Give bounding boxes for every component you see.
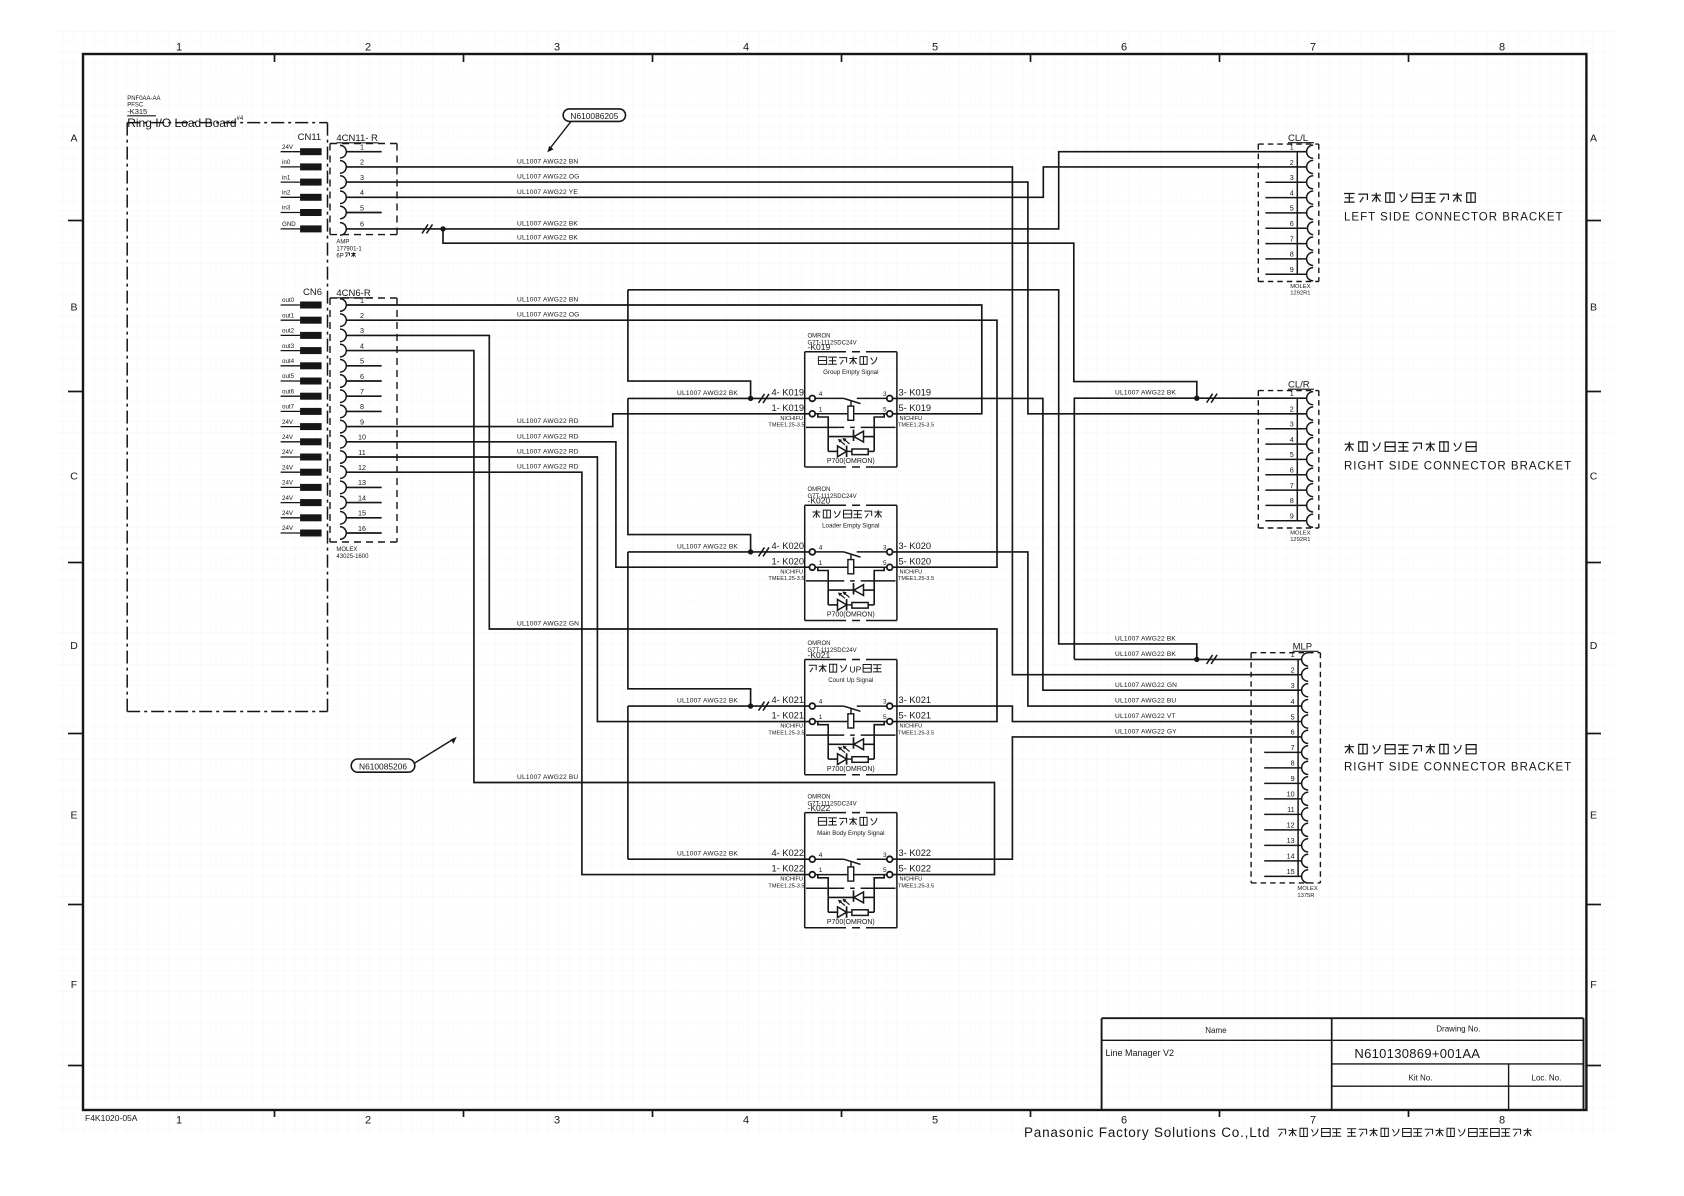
MLP pin 8 socket (1302, 761, 1309, 774)
svg-text:24V: 24V (282, 480, 294, 487)
CL/L pin 7 socket (1307, 237, 1314, 250)
svg-text:UL1007 AWG22 BK: UL1007 AWG22 BK (1115, 390, 1176, 397)
wire 4CN11-R pin1 stub (346, 151, 382, 153)
svg-text:7: 7 (1290, 234, 1294, 243)
wire BK branch to CL/R pin1 junction (443, 229, 1197, 398)
svg-text:3: 3 (1290, 420, 1294, 429)
svg-text:3: 3 (554, 1115, 560, 1127)
svg-text:A: A (70, 132, 77, 144)
svg-text:NICHIFU: NICHIFU (780, 877, 803, 883)
svg-text:3: 3 (883, 545, 887, 552)
wire 4CN6-R stub (346, 486, 382, 488)
svg-text:24V: 24V (282, 525, 294, 532)
CL/R pin 8 socket (1307, 499, 1314, 512)
CL/R pin 2 socket (1307, 407, 1314, 420)
CL/R pin 8 stub wire (1265, 504, 1306, 506)
svg-text:5- K021: 5- K021 (899, 711, 932, 721)
svg-text:4- K022: 4- K022 (771, 848, 804, 858)
svg-text:10: 10 (1287, 790, 1295, 799)
cable marker (759, 394, 765, 403)
svg-text:12: 12 (358, 463, 366, 472)
svg-text:4: 4 (1290, 188, 1294, 197)
connector MLP pin rail (1297, 659, 1299, 876)
svg-text:1- K019: 1- K019 (771, 403, 804, 413)
svg-text:1- K020: 1- K020 (771, 556, 804, 566)
svg-text:24V: 24V (282, 510, 294, 517)
svg-text:13: 13 (358, 478, 366, 487)
wire 4CN6-R stub (346, 517, 382, 519)
svg-text:14: 14 (358, 493, 366, 502)
svg-text:B: B (70, 302, 77, 314)
svg-text:3- K022: 3- K022 (899, 848, 932, 858)
wire relay K022 pin3 to MLP pin6 (892, 737, 1302, 859)
svg-text:8: 8 (1291, 759, 1295, 768)
svg-text:24V: 24V (282, 495, 294, 502)
MLP pin 13 stub wire (1264, 844, 1301, 846)
MLP pin 2 socket (1302, 668, 1309, 681)
svg-text:AMP: AMP (336, 240, 349, 246)
svg-text:7: 7 (1290, 481, 1294, 490)
svg-text:NICHIFU: NICHIFU (780, 724, 803, 730)
wire GN CN6 out2 to relay K021 pin5 (346, 335, 997, 721)
CL/L pin 1 socket (1307, 145, 1314, 158)
svg-text:CN11: CN11 (298, 132, 322, 143)
svg-text:6: 6 (1291, 728, 1295, 737)
wire 4CN6-R stub (346, 365, 382, 367)
wire BN CN11 in0 to MLP pin2 (346, 167, 1302, 675)
svg-text:RIGHT SIDE CONNECTOR BRACKET: RIGHT SIDE CONNECTOR BRACKET (1344, 461, 1572, 473)
svg-text:5: 5 (883, 560, 887, 567)
column ticks top (274, 54, 276, 62)
MLP pin 13 socket (1302, 839, 1309, 852)
svg-text:4: 4 (819, 391, 823, 398)
svg-text:1: 1 (360, 143, 364, 152)
4CN6-R pin 9 socket (340, 420, 346, 433)
CL/R pin 9 socket (1307, 514, 1314, 527)
svg-text:Count Up Signal: Count Up Signal (828, 677, 873, 684)
svg-text:13: 13 (1287, 836, 1295, 845)
svg-text:NICHIFU: NICHIFU (900, 877, 923, 883)
svg-text:1: 1 (819, 406, 823, 413)
svg-text:TMEE1.25-3.5: TMEE1.25-3.5 (898, 730, 934, 736)
svg-text:C: C (1590, 471, 1598, 483)
4CN6-R pin 15 socket (340, 512, 346, 525)
svg-text:Drawing No.: Drawing No. (1436, 1025, 1480, 1034)
svg-text:24V: 24V (282, 419, 294, 426)
svg-text:7: 7 (360, 387, 364, 396)
relay U K020 OMRON G7T-1112SDC24V (768, 487, 934, 621)
svg-text:1: 1 (176, 42, 182, 54)
CL/L pin 7 stub wire (1265, 243, 1306, 245)
svg-text:6: 6 (1121, 42, 1127, 54)
svg-text:2: 2 (360, 311, 364, 320)
CL/L pin 6 socket (1307, 222, 1313, 235)
svg-text:MOLEX: MOLEX (336, 547, 357, 553)
svg-text:2: 2 (360, 158, 364, 167)
svg-text:UL1007 AWG22 RD: UL1007 AWG22 RD (517, 464, 579, 471)
MLP pin 4 socket (1302, 700, 1309, 713)
svg-text:UL1007 AWG22 BK: UL1007 AWG22 BK (517, 220, 578, 227)
svg-text:out0: out0 (282, 297, 295, 304)
MLP pin 9 stub wire (1264, 782, 1301, 784)
svg-text:Line Manager V2: Line Manager V2 (1106, 1048, 1175, 1058)
drawing border frame (83, 54, 1586, 1110)
svg-text:2: 2 (1291, 666, 1295, 675)
svg-text:TMEE1.25-3.5: TMEE1.25-3.5 (768, 730, 804, 736)
CL/L pin 9 socket (1307, 268, 1314, 281)
svg-text:1: 1 (360, 296, 364, 305)
svg-text:4: 4 (743, 42, 749, 54)
svg-text:UL1007 AWG22 OG: UL1007 AWG22 OG (517, 312, 580, 319)
svg-text:NICHIFU: NICHIFU (780, 416, 803, 422)
title block (1102, 1017, 1584, 1019)
svg-text:2: 2 (365, 1115, 371, 1127)
4CN6-R dashed outline (330, 297, 397, 299)
MLP pin 7 socket (1302, 746, 1309, 759)
CL/R pin 4 socket (1307, 438, 1314, 451)
svg-text:C: C (70, 471, 78, 483)
svg-text:3- K021: 3- K021 (899, 695, 932, 705)
CL/L pin 3 stub wire (1265, 181, 1306, 183)
relay U K019 OMRON G7T-1112SDC24V (768, 334, 934, 468)
wire YE CN11 in2 to CL/L pin2 (346, 167, 1307, 197)
CL/L pin 3 socket (1307, 176, 1314, 189)
svg-text:14: 14 (1287, 852, 1295, 861)
CL/R pin 4 stub wire (1265, 443, 1306, 445)
wire RD CN6 24V pin11 to relay K021 pin1 (346, 457, 809, 722)
label left side connector bracket (JP) (1344, 194, 1355, 203)
junction BK chain (748, 549, 753, 554)
wire relay K020 pin3 to MLP pin4 (892, 552, 1302, 706)
svg-text:OMRON: OMRON (808, 794, 831, 800)
svg-text:2: 2 (1290, 158, 1294, 167)
svg-text:D: D (70, 640, 78, 652)
CL/R pin 7 stub wire (1265, 489, 1306, 491)
svg-text:7: 7 (1310, 42, 1316, 54)
cable marker on GND wire (422, 224, 428, 233)
svg-text:in2: in2 (282, 190, 291, 197)
svg-text:1292R1: 1292R1 (1290, 291, 1310, 297)
MLP pin 5 socket (1302, 715, 1309, 728)
wire MLP pin1 line (1074, 658, 1302, 660)
svg-text:in3: in3 (282, 205, 291, 212)
4CN6-R pin 11 socket (340, 451, 346, 464)
svg-text:9: 9 (1290, 512, 1294, 521)
svg-text:7: 7 (1291, 743, 1295, 752)
wire 4CN11-R pin5 stub (346, 212, 382, 214)
svg-text:1: 1 (1291, 650, 1295, 659)
svg-text:1: 1 (1290, 143, 1294, 152)
svg-text:4: 4 (1291, 697, 1295, 706)
CL/L pin 2 socket (1307, 160, 1314, 173)
svg-text:8: 8 (1290, 496, 1294, 505)
svg-text:P700(OMRON): P700(OMRON) (827, 612, 875, 619)
svg-text:TMEE1.25-3.5: TMEE1.25-3.5 (898, 883, 934, 889)
svg-text:UL1007 AWG22 BK: UL1007 AWG22 BK (677, 390, 738, 397)
svg-text:5- K022: 5- K022 (899, 864, 932, 874)
svg-text:6P: 6P (336, 254, 343, 260)
junction GND branch (440, 226, 445, 231)
CL/R pin 5 socket (1307, 453, 1314, 466)
svg-text:12: 12 (1287, 821, 1295, 830)
svg-text:6: 6 (1290, 219, 1294, 228)
svg-text:UL1007 AWG22 GN: UL1007 AWG22 GN (517, 621, 579, 628)
svg-text:8: 8 (360, 402, 364, 411)
svg-text:F4K1020-05A: F4K1020-05A (85, 1113, 138, 1123)
svg-text:OMRON: OMRON (808, 334, 831, 340)
svg-text:177901-1: 177901-1 (336, 247, 362, 253)
wire relay K019 pin3 to MLP pin3 (892, 398, 1302, 690)
svg-text:TMEE1.25-3.5: TMEE1.25-3.5 (898, 423, 934, 429)
wire 4CN6-R stub (346, 395, 382, 397)
4CN6-R pin 14 socket (340, 496, 346, 509)
MLP pin 11 socket (1302, 808, 1309, 821)
wire RD CN6 24V pin10 to relay K020 pin1 (346, 442, 809, 567)
svg-text:1- K022: 1- K022 (771, 864, 804, 874)
svg-text:N610130869+001AA: N610130869+001AA (1354, 1046, 1480, 1061)
CL/L pin 4 stub wire (1265, 197, 1306, 199)
svg-text:3: 3 (360, 326, 364, 335)
4CN11-R pin 3 socket (340, 176, 346, 189)
wire BN CN6 out0 to relay K019 pin5 (346, 305, 982, 414)
cable marker (759, 547, 765, 556)
svg-text:UL1007 AWG22 BN: UL1007 AWG22 BN (517, 297, 578, 304)
svg-text:1: 1 (819, 714, 823, 721)
4CN6-R pin 8 socket (340, 405, 346, 418)
svg-text:P700(OMRON): P700(OMRON) (827, 458, 875, 465)
svg-text:MOLEX: MOLEX (1290, 284, 1310, 290)
svg-text:3- K019: 3- K019 (899, 387, 932, 397)
svg-text:6: 6 (1290, 466, 1294, 475)
svg-text:UL1007 AWG22 BK: UL1007 AWG22 BK (677, 851, 738, 858)
svg-text:24V: 24V (282, 434, 294, 441)
wire RD CN6 24V pin12 to relay K022 pin1 (346, 472, 809, 874)
MLP pin 3 socket (1302, 684, 1309, 697)
svg-text:4: 4 (360, 341, 364, 350)
svg-text:8: 8 (1499, 42, 1505, 54)
connector CL/R pin rail (1296, 398, 1298, 521)
svg-text:CN6: CN6 (303, 287, 322, 298)
svg-text:OMRON: OMRON (808, 487, 831, 493)
svg-text:4: 4 (743, 1115, 749, 1127)
svg-text:UL1007 AWG22 BN: UL1007 AWG22 BN (517, 158, 578, 165)
CL/L pin 6 stub wire (1265, 227, 1306, 229)
wire 4CN6-R stub (346, 502, 382, 504)
svg-text:GND: GND (282, 221, 296, 228)
CL/L pin 9 stub wire (1265, 273, 1306, 275)
svg-text:8: 8 (1290, 250, 1294, 259)
svg-text:1292R1: 1292R1 (1290, 537, 1310, 543)
connector CL/R dashed outline (1258, 390, 1319, 392)
connector CL/L pin rail (1296, 152, 1298, 275)
CL/R pin 1 socket (1307, 392, 1314, 405)
svg-text:3: 3 (883, 699, 887, 706)
svg-text:15: 15 (1287, 867, 1295, 876)
wire BK relay chain feed from top (628, 290, 1197, 660)
svg-text:F: F (1590, 979, 1596, 991)
svg-text:N610085206: N610085206 (359, 762, 407, 772)
svg-text:24V: 24V (282, 464, 294, 471)
MLP pin 12 socket (1302, 823, 1309, 836)
svg-text:16: 16 (358, 524, 366, 533)
4CN6-R pin 13 socket (340, 481, 346, 494)
svg-text:out7: out7 (282, 404, 295, 411)
callout N610085206 (351, 759, 415, 772)
svg-text:1: 1 (819, 560, 823, 567)
svg-text:P700(OMRON): P700(OMRON) (827, 766, 875, 773)
svg-text:out4: out4 (282, 358, 295, 365)
svg-text:4: 4 (819, 545, 823, 552)
callout N610086205 (563, 109, 625, 122)
svg-text:TMEE1.25-3.5: TMEE1.25-3.5 (898, 576, 934, 582)
svg-text:2: 2 (1290, 404, 1294, 413)
4CN6-R pin 7 socket (340, 390, 346, 403)
svg-text:UL1007 AWG22 BK: UL1007 AWG22 BK (517, 235, 578, 242)
svg-text:11: 11 (358, 448, 365, 457)
connector MLP dashed outline (1251, 652, 1320, 654)
svg-text:UL1007 AWG22 RD: UL1007 AWG22 RD (517, 418, 579, 425)
svg-text:NICHIFU: NICHIFU (900, 416, 923, 422)
CL/L pin 5 stub wire (1265, 212, 1306, 214)
svg-text:3: 3 (883, 391, 887, 398)
MLP pin 15 stub wire (1264, 875, 1301, 877)
svg-text:UL1007 AWG22 OG: UL1007 AWG22 OG (517, 174, 580, 181)
svg-text:4- K021: 4- K021 (771, 695, 804, 705)
MLP pin 6 socket (1302, 730, 1309, 743)
CL/L pin 4 socket (1307, 191, 1314, 204)
svg-text:6: 6 (360, 372, 364, 381)
4CN11-R pin 4 socket (340, 191, 346, 204)
svg-text:out1: out1 (282, 312, 295, 319)
callout arrow N610086205 (550, 121, 572, 149)
svg-text:5- K019: 5- K019 (899, 403, 932, 413)
svg-text:UL1007 AWG22 BK: UL1007 AWG22 BK (677, 698, 738, 705)
svg-text:43025-1600: 43025-1600 (336, 554, 369, 560)
svg-text:UL1007 AWG22 BK: UL1007 AWG22 BK (1115, 651, 1176, 658)
svg-text:5: 5 (883, 406, 887, 413)
svg-text:TMEE1.25-3.5: TMEE1.25-3.5 (768, 423, 804, 429)
wire CL/R pin1 line with junction (1074, 398, 1307, 659)
svg-text:NICHIFU: NICHIFU (780, 569, 803, 575)
svg-text:3: 3 (554, 42, 560, 54)
wire RD CN6 24V pin9 to relay K019 pin1 (346, 414, 809, 427)
wire BU CN6 out3 to relay K022 pin5 (346, 351, 994, 875)
4CN6-R pin 4 socket (340, 344, 346, 357)
svg-text:PNF0AA-AA: PNF0AA-AA (127, 96, 160, 102)
MLP pin 1 socket (1302, 653, 1309, 666)
MLP pin 9 socket (1302, 777, 1309, 790)
CL/L pin 8 stub wire (1265, 258, 1306, 260)
svg-text:5: 5 (360, 203, 364, 212)
label right side connector bracket (JP) CL/R (1345, 442, 1354, 451)
MLP pin 10 socket (1302, 792, 1309, 805)
svg-text:5: 5 (932, 42, 938, 54)
svg-text:7: 7 (1310, 1115, 1316, 1127)
svg-text:5: 5 (883, 714, 887, 721)
svg-text:Group Empty Signal: Group Empty Signal (823, 369, 878, 376)
cable marker (759, 702, 765, 711)
svg-text:Name: Name (1205, 1026, 1227, 1035)
svg-text:1: 1 (819, 867, 823, 874)
CL/R pin 6 socket (1307, 468, 1314, 481)
svg-text:E: E (1590, 810, 1597, 822)
svg-text:#4: #4 (237, 116, 244, 122)
row ticks right (1586, 220, 1601, 222)
svg-text:5: 5 (883, 867, 887, 874)
svg-text:out2: out2 (282, 328, 295, 335)
svg-text:4- K019: 4- K019 (771, 387, 804, 397)
CL/L pin 8 socket (1307, 252, 1314, 265)
column ticks bottom (274, 1110, 276, 1117)
CL/R pin 3 stub wire (1265, 428, 1306, 430)
svg-text:3: 3 (1291, 681, 1295, 690)
svg-text:N610086205: N610086205 (570, 111, 618, 121)
svg-text:F: F (71, 979, 77, 991)
svg-text:TMEE1.25-3.5: TMEE1.25-3.5 (768, 883, 804, 889)
svg-text:1: 1 (176, 1115, 182, 1127)
svg-text:3: 3 (360, 173, 364, 182)
svg-text:9: 9 (1290, 265, 1294, 274)
wire OG CN6 out1 to relay K020 pin5 (346, 320, 997, 567)
CL/R pin 3 socket (1307, 422, 1314, 435)
svg-text:MOLEX: MOLEX (1290, 531, 1310, 537)
svg-text:4: 4 (819, 699, 823, 706)
4CN11-R pin 5 socket (340, 206, 346, 219)
svg-text:Main Body Empty Signal: Main Body Empty Signal (817, 830, 884, 837)
svg-text:-K020: -K020 (808, 496, 831, 506)
svg-text:4- K020: 4- K020 (771, 541, 804, 551)
CL/R pin 6 stub wire (1265, 474, 1306, 476)
svg-text:4: 4 (819, 852, 823, 859)
svg-text:1- K021: 1- K021 (771, 711, 804, 721)
svg-text:MOLEX: MOLEX (1297, 886, 1317, 892)
MLP pin 10 stub wire (1264, 798, 1301, 800)
wire BK CN11 GND to CL/L pin1 (346, 152, 1307, 229)
wire 4CN6-R stub (346, 380, 382, 382)
4CN6-R pin 16 socket (340, 527, 346, 540)
svg-text:-K315: -K315 (127, 107, 147, 116)
svg-text:5: 5 (1290, 204, 1294, 213)
connector CL/L dashed outline (1258, 143, 1319, 145)
svg-text:11: 11 (1287, 805, 1294, 814)
relay U K021 OMRON G7T-1112SDC24V (768, 641, 934, 775)
svg-text:RIGHT SIDE CONNECTOR BRACKET: RIGHT SIDE CONNECTOR BRACKET (1344, 762, 1572, 774)
wire 4CN6-R stub (346, 410, 382, 412)
svg-text:Loc. No.: Loc. No. (1532, 1074, 1562, 1083)
svg-text:UL1007 AWG22 BU: UL1007 AWG22 BU (517, 774, 578, 781)
svg-text:UL1007 AWG22 BK: UL1007 AWG22 BK (1115, 635, 1176, 642)
svg-text:4: 4 (1290, 435, 1294, 444)
svg-text:Ring I/O Load Board: Ring I/O Load Board (127, 116, 236, 130)
CL/R pin 5 stub wire (1265, 458, 1306, 460)
svg-text:UL1007 AWG22 RD: UL1007 AWG22 RD (517, 449, 579, 456)
svg-text:10: 10 (358, 433, 366, 442)
svg-text:4: 4 (360, 188, 364, 197)
svg-text:8: 8 (1499, 1115, 1505, 1127)
svg-text:P700(OMRON): P700(OMRON) (827, 919, 875, 926)
svg-text:UL1007 AWG22 GN: UL1007 AWG22 GN (1115, 682, 1177, 689)
4CN6-R pin 6 socket (340, 375, 346, 388)
callout arrow N610085206 (415, 739, 454, 763)
svg-text:Kit No.: Kit No. (1408, 1074, 1432, 1083)
svg-text:5: 5 (932, 1115, 938, 1127)
svg-text:-K019: -K019 (808, 342, 831, 352)
junction BK chain (748, 703, 753, 708)
4CN6-R pin 10 socket (340, 436, 346, 449)
4CN6-R pin 2 socket (340, 314, 346, 327)
svg-text:5: 5 (360, 357, 364, 366)
MLP pin 7 stub wire (1264, 751, 1301, 753)
